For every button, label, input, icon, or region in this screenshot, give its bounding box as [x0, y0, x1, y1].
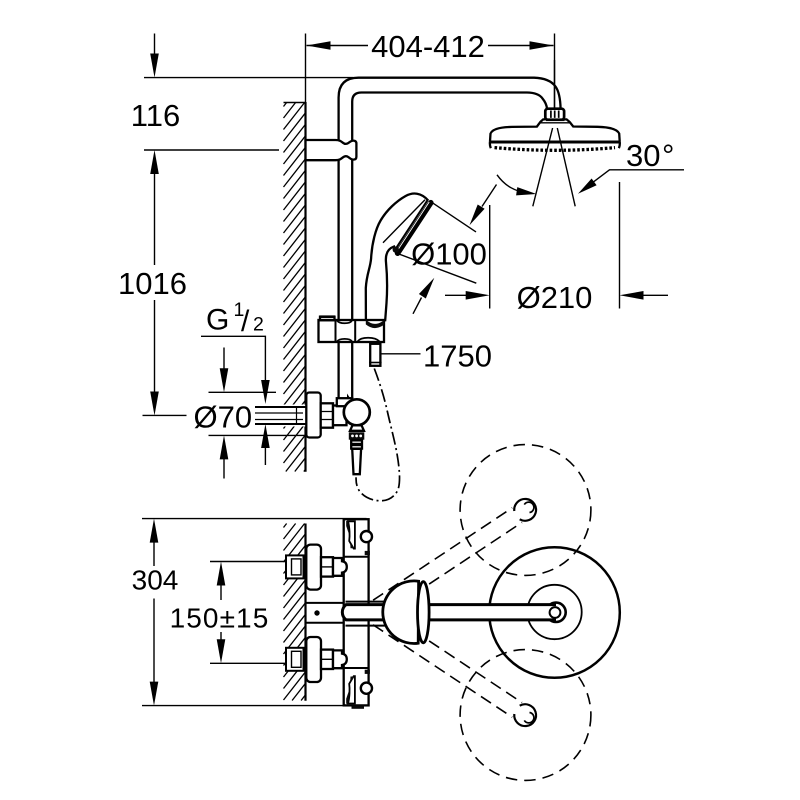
- swivel arm position (up, dashed): [373, 508, 522, 615]
- shower pipe (rail + horizontal arm): [339, 78, 561, 321]
- thermostat body: [344, 519, 369, 705]
- dimension 404-412 extension lines: [306, 34, 555, 111]
- svg-text:116: 116: [131, 98, 180, 133]
- union nut (bottom): [321, 650, 333, 669]
- svg-text:/: /: [241, 305, 250, 338]
- dimension 150±15: [210, 562, 290, 664]
- label 30 deg leader + arrow: [585, 170, 685, 189]
- spout flange circle (front view): [489, 547, 620, 678]
- dimension Ø210 extension lines: [490, 182, 620, 309]
- dimension Ø100: [413, 185, 497, 314]
- svg-text:30: 30: [626, 138, 660, 173]
- spout pivot block: [306, 603, 344, 623]
- hose outlet: [370, 344, 380, 366]
- pivot axis dot: [314, 610, 319, 615]
- wall (lower) edge: [304, 524, 306, 701]
- swivel position circle (up, dashed): [460, 445, 591, 576]
- dimension Ø70: [209, 392, 321, 435]
- svg-text:150±15: 150±15: [170, 603, 270, 634]
- dimension 1016: [154, 174, 156, 392]
- supply pipe stub: [282, 405, 306, 427]
- hose sleeve: [352, 449, 361, 474]
- hand shower face plate: [398, 203, 431, 254]
- outlet flare: [350, 425, 364, 431]
- hex nut: [321, 403, 333, 427]
- bracket lock knob: [320, 317, 335, 321]
- dimension 116: [144, 78, 353, 150]
- union nut (top): [321, 557, 333, 576]
- handle (top): [348, 521, 355, 548]
- head shower rim: [490, 141, 620, 144]
- wall (lower) hatching: [284, 524, 306, 701]
- swivel arm end cap (up): [514, 499, 536, 521]
- extension line x=554.5: [554, 60, 556, 110]
- svg-text:°: °: [662, 138, 674, 173]
- head shower dome: [490, 119, 620, 148]
- union escutcheon (top): [306, 545, 321, 590]
- label 1750 leader: [382, 353, 421, 355]
- swivel position circle (down, dashed): [460, 650, 591, 781]
- diverter ball: [344, 399, 370, 425]
- wall (upper) edge: [284, 102, 306, 104]
- svg-text:Ø210: Ø210: [517, 280, 593, 315]
- svg-text:G: G: [206, 304, 229, 337]
- swivel arm position (down, dashed): [373, 610, 522, 717]
- svg-text:1016: 1016: [118, 266, 187, 301]
- union in-wall elbow (top): [286, 555, 304, 578]
- tee under pipe: [337, 398, 352, 406]
- spout arm end bulb: [546, 603, 565, 622]
- valve body: [333, 406, 347, 426]
- dimension Ø210: [445, 294, 668, 296]
- spout arm (horizontal): [342, 605, 556, 620]
- svg-text:404-412: 404-412: [371, 29, 485, 64]
- wall (upper) hatching: [284, 103, 306, 472]
- dimension 304: [142, 519, 367, 706]
- spout flange inner circle: [527, 585, 581, 639]
- handle (bottom): [348, 676, 355, 703]
- spray cone lines: [533, 128, 575, 206]
- head shower spray face: [495, 148, 616, 151]
- svg-text:304: 304: [132, 565, 179, 596]
- G 1/2 leader: [201, 336, 265, 465]
- svg-text:Ø100: Ø100: [411, 237, 487, 272]
- union adapter (top): [333, 558, 347, 576]
- hand shower handle end: [366, 320, 384, 329]
- spout arm collar: [346, 602, 386, 626]
- slider bracket: [319, 320, 385, 342]
- swivel arm end cap (down): [514, 704, 536, 726]
- union escutcheon (bottom): [306, 637, 321, 682]
- svg-text:1750: 1750: [423, 339, 492, 374]
- dimension 404-412: [307, 45, 554, 47]
- wall escutcheon (Ø70): [306, 393, 320, 438]
- svg-text:2: 2: [253, 314, 264, 336]
- svg-text:Ø70: Ø70: [194, 400, 253, 435]
- swivel arc arrow left: [497, 175, 529, 194]
- ball joint nut: [545, 109, 564, 120]
- wall mount bracket: [306, 140, 357, 160]
- union adapter (bottom): [333, 650, 347, 668]
- dimension Ø100 extension lines: [395, 201, 476, 283]
- spout bell (perspective): [383, 581, 419, 644]
- union in-wall elbow (bottom): [286, 648, 304, 671]
- shower hose: [356, 369, 399, 501]
- hand shower body: [366, 194, 429, 321]
- hose nut (knurled): [349, 432, 365, 439]
